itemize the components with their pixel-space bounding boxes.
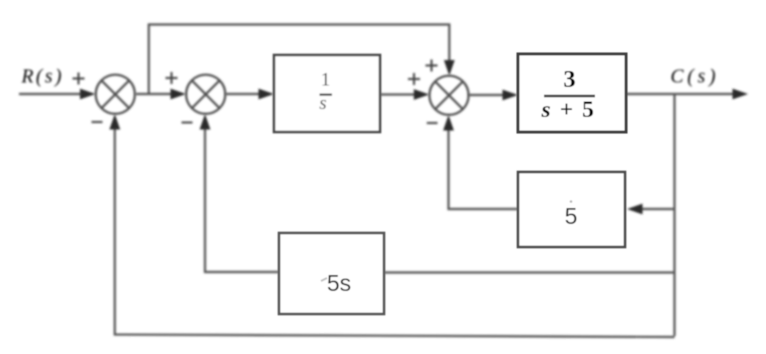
wire: junction1 to junction2 <box>136 93 174 95</box>
faint smudge left of 5s <box>321 278 327 281</box>
wire: block 3/(s+5) to output C(s) <box>626 93 736 95</box>
summing junction S2 <box>186 75 225 114</box>
wire: 5s input from right vertical <box>384 271 675 273</box>
wire: input R(s) line <box>19 93 82 95</box>
sign + at S3 top input <box>426 60 438 72</box>
svg-text:C(s): C(s) <box>671 67 720 88</box>
sign + at S3 left input <box>408 73 420 85</box>
svg-text:3: 3 <box>563 66 575 93</box>
wire: feedforward branch up from main line <box>149 25 450 95</box>
sign - at S3 bottom <box>427 122 438 124</box>
wire: 5s output left and up to junction2 <box>205 127 279 272</box>
wire: junction3 to block 3/(s+5) <box>469 94 507 96</box>
block H1: 5 <box>518 172 625 247</box>
sign + at S1 input <box>73 73 85 85</box>
arrowhead: down into S3 top <box>444 60 455 76</box>
sign - at S1 bottom <box>92 121 103 123</box>
arrowhead: output C(s) <box>733 89 749 100</box>
summing junction S3 <box>429 76 468 115</box>
wire: block 5 output left and up to junction3 <box>449 127 519 209</box>
arrowhead: up into S1 bottom <box>109 114 120 130</box>
arrowhead: left into block 5 <box>627 204 643 215</box>
arrowhead: into block 3/(s+5) <box>503 90 519 101</box>
svg-text:5s: 5s <box>327 270 351 296</box>
arrowhead: into S2 <box>171 89 187 100</box>
svg-text:s: s <box>319 93 326 114</box>
sign - at S2 bottom <box>182 122 193 124</box>
arrowhead: up into S3 bottom <box>443 115 454 131</box>
faint dot artifact above 5 <box>570 200 573 203</box>
block G2: 3/(s+5) <box>518 54 626 132</box>
block H2: 5s <box>279 233 384 314</box>
arrowhead: into S3 from left <box>414 89 430 100</box>
summing junction S1 <box>96 75 135 114</box>
wire: into block 5 from right <box>640 208 675 210</box>
svg-text:1: 1 <box>321 70 331 91</box>
wire: outer feedback bottom and up to junction1 <box>115 127 675 337</box>
wire: output branch down vertical <box>673 94 675 336</box>
arrowhead: into block 1/s <box>259 89 275 100</box>
svg-text:5: 5 <box>565 203 578 229</box>
wire: junction2 to block 1/s <box>226 93 263 95</box>
arrowhead: up into S2 bottom <box>200 114 211 130</box>
svg-text:R(s): R(s) <box>21 67 65 88</box>
svg-text:s + 5: s + 5 <box>540 97 595 123</box>
sign + at S2 input <box>166 72 178 84</box>
arrowhead: input into S1 <box>80 89 96 100</box>
wire: block 1/s to junction3 <box>380 93 417 95</box>
block G1: 1/s <box>274 55 380 132</box>
